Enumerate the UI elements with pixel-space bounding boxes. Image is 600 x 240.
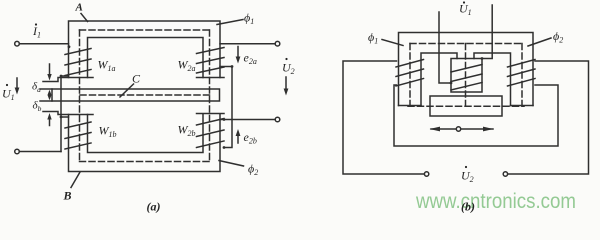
arrow air gap delta-b — [49, 117, 51, 126]
terminal T3 (secondary top-right) — [275, 41, 280, 46]
junction dot primary right (fig b) — [481, 57, 484, 60]
core E left pole face — [399, 105, 422, 107]
core E (fig b) outer outline — [399, 33, 534, 106]
svg-text:A: A — [75, 2, 83, 14]
movement arrow shaft (fig b) — [431, 128, 493, 130]
svg-text:U2: U2 — [461, 169, 474, 185]
core E right pole face — [511, 105, 534, 107]
secondary loop inner (fig b) — [394, 85, 558, 146]
junction dot W1a bottom — [60, 75, 63, 78]
secondary coil right turns (fig b) — [508, 60, 536, 87]
wire connecting W2a to W2b — [220, 67, 232, 148]
pointer line label A — [81, 14, 88, 22]
junction dot W2a bottom — [231, 65, 234, 68]
svg-text:ϕ1: ϕ1 — [368, 30, 378, 46]
flux dashed right leg (fig b) — [521, 44, 523, 107]
pointer line phi2 (fig b) — [528, 38, 551, 46]
arrow pair inside armature — [49, 93, 51, 98]
svg-text:ϕ2: ϕ2 — [553, 29, 563, 45]
flux path right leg dashed — [209, 30, 211, 162]
armature C bar — [52, 89, 220, 101]
svg-text:(a): (a) — [147, 200, 161, 214]
movement arrowhead left (fig b) — [430, 127, 441, 132]
svg-text:I1: I1 — [32, 24, 41, 40]
flux path phi2 dashed bottom — [80, 161, 210, 163]
junction dot W1a input — [68, 45, 71, 48]
movement arrowhead right (fig b) — [483, 127, 494, 132]
pointer line phi1 (fig b) — [382, 40, 403, 46]
wire from T2 to winding W1b — [20, 151, 62, 153]
secondary loop outer right (fig b) — [508, 61, 589, 174]
dot over U1 (fig b) — [463, 1, 465, 3]
arrow e2b direction — [237, 133, 239, 143]
core B right pole line — [197, 113, 225, 115]
flux path phi1 dashed loop — [80, 29, 210, 31]
dot over I1 — [35, 23, 37, 25]
terminal T2 (primary bottom-left) — [15, 149, 20, 154]
terminal U2 left (fig b) — [424, 172, 428, 176]
svg-text:C: C — [132, 72, 141, 86]
terminal T4 (secondary mid-right) — [275, 117, 280, 122]
wire connecting W1a to W1b — [61, 76, 69, 152]
svg-text:U1: U1 — [459, 2, 472, 18]
dot over U2 (fig b) — [465, 166, 467, 168]
svg-text:B: B — [63, 189, 72, 203]
arrowhead e2b — [236, 129, 241, 136]
dot over U2 — [285, 58, 287, 60]
arrowhead e2a — [236, 57, 241, 64]
junction dot W2b bottom — [223, 146, 226, 149]
arrowhead armature down — [48, 95, 52, 100]
junction dot W1b top — [60, 116, 63, 119]
svg-text:(b): (b) — [461, 200, 475, 214]
flux dashed left leg (fig b) — [409, 44, 411, 107]
core E right window — [474, 53, 511, 106]
wire from T1 to winding W1a — [20, 43, 69, 45]
core B window inner edge — [88, 115, 204, 153]
armature gap tick upper — [40, 88, 52, 90]
svg-text:W1b: W1b — [99, 124, 117, 140]
core A right pole line — [197, 77, 225, 79]
core B left pole step — [43, 112, 93, 115]
pointer line label C — [120, 84, 134, 97]
junction dot W2b top — [223, 118, 226, 121]
core A left pole step — [43, 78, 93, 82]
arrowhead armature up — [48, 90, 52, 95]
movement pivot circle (fig b) — [456, 127, 460, 131]
winding W1b turns — [65, 122, 91, 149]
arrowhead U2 — [284, 89, 289, 96]
arrow e2a direction — [237, 47, 239, 60]
armature bar (fig b) — [430, 96, 502, 116]
arrowhead delta-a down — [47, 74, 51, 81]
core A (upper U-core outline) — [69, 21, 221, 78]
arrow U2 direction — [285, 77, 287, 91]
svg-text:e2a: e2a — [244, 51, 257, 67]
svg-text:www.cntronics.com: www.cntronics.com — [415, 190, 576, 213]
svg-text:W1a: W1a — [98, 58, 116, 74]
svg-text:U1: U1 — [2, 87, 15, 103]
wire from W2b to terminal T4 — [220, 119, 275, 121]
flux dashed center leg (fig b) — [465, 44, 467, 107]
svg-text:W2b: W2b — [178, 123, 196, 139]
wire U1 feed left (fig b) — [439, 12, 451, 83]
winding W1a turns — [65, 49, 91, 76]
armature gap tick lower — [40, 100, 52, 102]
core A window inner edge — [88, 38, 204, 78]
secondary coil left turns (fig b) — [396, 60, 424, 87]
terminal T1 (primary top-left) — [15, 41, 20, 46]
flux dashed through armature (fig b) — [408, 105, 524, 107]
pointer line label B — [71, 172, 80, 188]
svg-text:ϕ2: ϕ2 — [248, 162, 258, 178]
terminal U2 right (fig b) — [503, 172, 507, 176]
pointer line label phi1 — [217, 20, 243, 25]
wire from W2a to terminal T3 — [220, 43, 275, 45]
winding W2a turns — [197, 48, 225, 74]
svg-text:ϕ1: ϕ1 — [244, 11, 254, 27]
flux path left leg dashed — [79, 30, 81, 162]
primary coil box (fig b center) — [451, 59, 482, 93]
flux path through armature dashed — [80, 94, 210, 96]
svg-text:W2a: W2a — [178, 58, 196, 74]
junction dot primary left (fig b) — [450, 82, 453, 85]
primary coil turns (fig b) — [451, 65, 482, 91]
core B (lower U-core outline) — [69, 115, 221, 172]
flux dashed top (fig b) — [410, 43, 522, 45]
core E left window — [421, 53, 457, 106]
dot over U1 — [6, 84, 8, 86]
arrowhead delta-b up — [47, 113, 51, 120]
winding W2b turns — [197, 119, 225, 148]
arrowhead U1 — [15, 88, 20, 95]
secondary loop outer left (fig b) — [343, 61, 424, 174]
svg-text:e2b: e2b — [244, 130, 257, 146]
wire U1 feed right (fig b) — [482, 5, 492, 59]
arrow U1 direction — [16, 78, 18, 91]
arrow air gap delta-a — [49, 64, 51, 77]
svg-text:U2: U2 — [282, 61, 295, 77]
pointer line label phi2 — [219, 161, 244, 167]
svg-text:δa: δa — [32, 81, 41, 95]
